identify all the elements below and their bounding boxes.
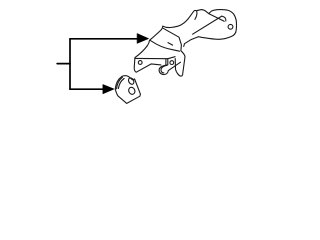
- clamp outline: [115, 76, 140, 104]
- bracket inner edge A and foot: [163, 28, 185, 76]
- bracket inner stub: [168, 43, 173, 46]
- bracket inner edge C: [150, 40, 180, 51]
- bracket outline upper-left edge: [135, 26, 163, 57]
- bracket flange top edge: [135, 58, 168, 65]
- bracket flange back edge: [168, 57, 175, 59]
- bracket fold hook: [222, 16, 226, 21]
- bracket flange hole right: [170, 61, 174, 65]
- bracket top plate inner line: [209, 14, 224, 21]
- bracket right edge and arm bottom edge: [184, 32, 236, 47]
- bracket flange slot tick: [165, 59, 167, 64]
- leader tick: [57, 63, 70, 65]
- arrowhead bottom: [103, 85, 114, 94]
- arrowhead top: [137, 34, 149, 44]
- bracket top edge: [163, 10, 237, 32]
- bracket right plate hole: [228, 24, 233, 29]
- leader vertical: [69, 39, 71, 89]
- bracket plate edge spur: [195, 11, 197, 20]
- leader top horizontal: [70, 38, 138, 40]
- bracket flange hook inner lip: [161, 65, 167, 73]
- clamp front hole: [128, 86, 136, 95]
- bracket fold line D: [193, 16, 222, 34]
- clamp band opening: [127, 77, 135, 85]
- bracket flange left and bottom edge: [134, 58, 161, 72]
- clamp inner band line 2: [118, 79, 124, 89]
- clamp inner band line: [117, 77, 123, 89]
- bracket flange hook: [159, 62, 180, 74]
- leader bottom horizontal: [70, 88, 103, 90]
- bracket flange hole left: [138, 61, 142, 65]
